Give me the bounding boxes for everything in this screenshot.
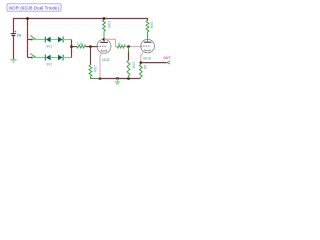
terminal OUT [167,61,170,64]
wire row 2 c [63,57,71,59]
node rail/input junction [26,17,29,20]
wire battery to ground [13,36,15,59]
wire R4 to rail [91,76,101,78]
wire input stub row 1 [28,39,33,41]
battery V1 24V [11,31,17,37]
wire input column [27,19,29,58]
wire row 2 a [33,57,45,59]
wire row 1 b [51,39,58,41]
svg-text:100k: 100k [149,21,153,29]
wire zener join column [71,40,73,58]
wire input stub row 2 [28,57,33,59]
wire top rail [14,19,148,34]
node plate1 [103,38,106,41]
wire row 1 a [33,39,45,41]
wire grid1 down [90,47,92,65]
wire bottom rail [100,78,140,80]
zener D1a 9V1 [45,37,50,43]
resistor R3 2.2k [77,45,86,48]
svg-text:100k: 100k [93,65,97,73]
svg-text:NOR (6DJ8 Dual Triode): NOR (6DJ8 Dual Triode) [9,5,60,10]
svg-text:2.2k: 2.2k [77,42,84,46]
resistor R7 1M cathode [140,63,142,65]
wire OUT [141,62,167,64]
resistor R6 1k [117,45,126,48]
triode U2 6DJ8 [141,39,155,53]
switch S2 [30,53,36,58]
svg-text:6DJ8: 6DJ8 [102,58,110,62]
node grid1 branch [70,45,73,48]
node ground/rail [116,77,119,80]
triode U1 6DJ8 [97,39,111,53]
wire grid2 down [128,47,130,52]
wire to R3 [72,46,78,48]
switch S1 [30,35,36,40]
svg-text:1M: 1M [143,65,147,70]
svg-text:9V1: 9V1 [47,63,53,67]
title box [7,4,61,11]
wire cathode2 [141,52,143,62]
resistor R2 10k [146,21,149,32]
wire R6 to grid2 [126,46,141,48]
wire cathode1 [100,53,102,79]
node rail/R1 [103,17,106,20]
node cathode1/rail [99,77,102,80]
resistor R5 100k grid leak 2 [127,60,130,75]
ground (main) [115,79,121,85]
node grid2 [127,45,130,48]
svg-text:100k: 100k [107,21,111,29]
wire plate1 to R6 [104,39,117,46]
node R5/rail [127,77,130,80]
wire row 2 b [51,57,58,59]
svg-text:100k: 100k [132,61,136,69]
node cathode2 [139,61,142,64]
svg-text:1k: 1k [117,42,121,46]
zener D2b 9V1 [58,55,63,61]
zener D1b 9V1 [58,37,63,43]
wire R2 to plate2 [147,32,149,39]
svg-text:6DJ8: 6DJ8 [143,57,151,61]
ground (battery) [10,60,17,63]
resistor R1 10k [103,20,106,31]
zener D2a 9V1 [45,55,50,61]
node grid1 [89,45,92,48]
resistor R4 100k grid leak 1 [89,65,92,76]
svg-text:9V1: 9V1 [47,45,53,49]
wire row 1 c [63,39,71,41]
wire R3 to grid1 [86,46,97,48]
wire R1 to plate1 [103,31,105,39]
svg-text:OUT: OUT [163,56,171,60]
